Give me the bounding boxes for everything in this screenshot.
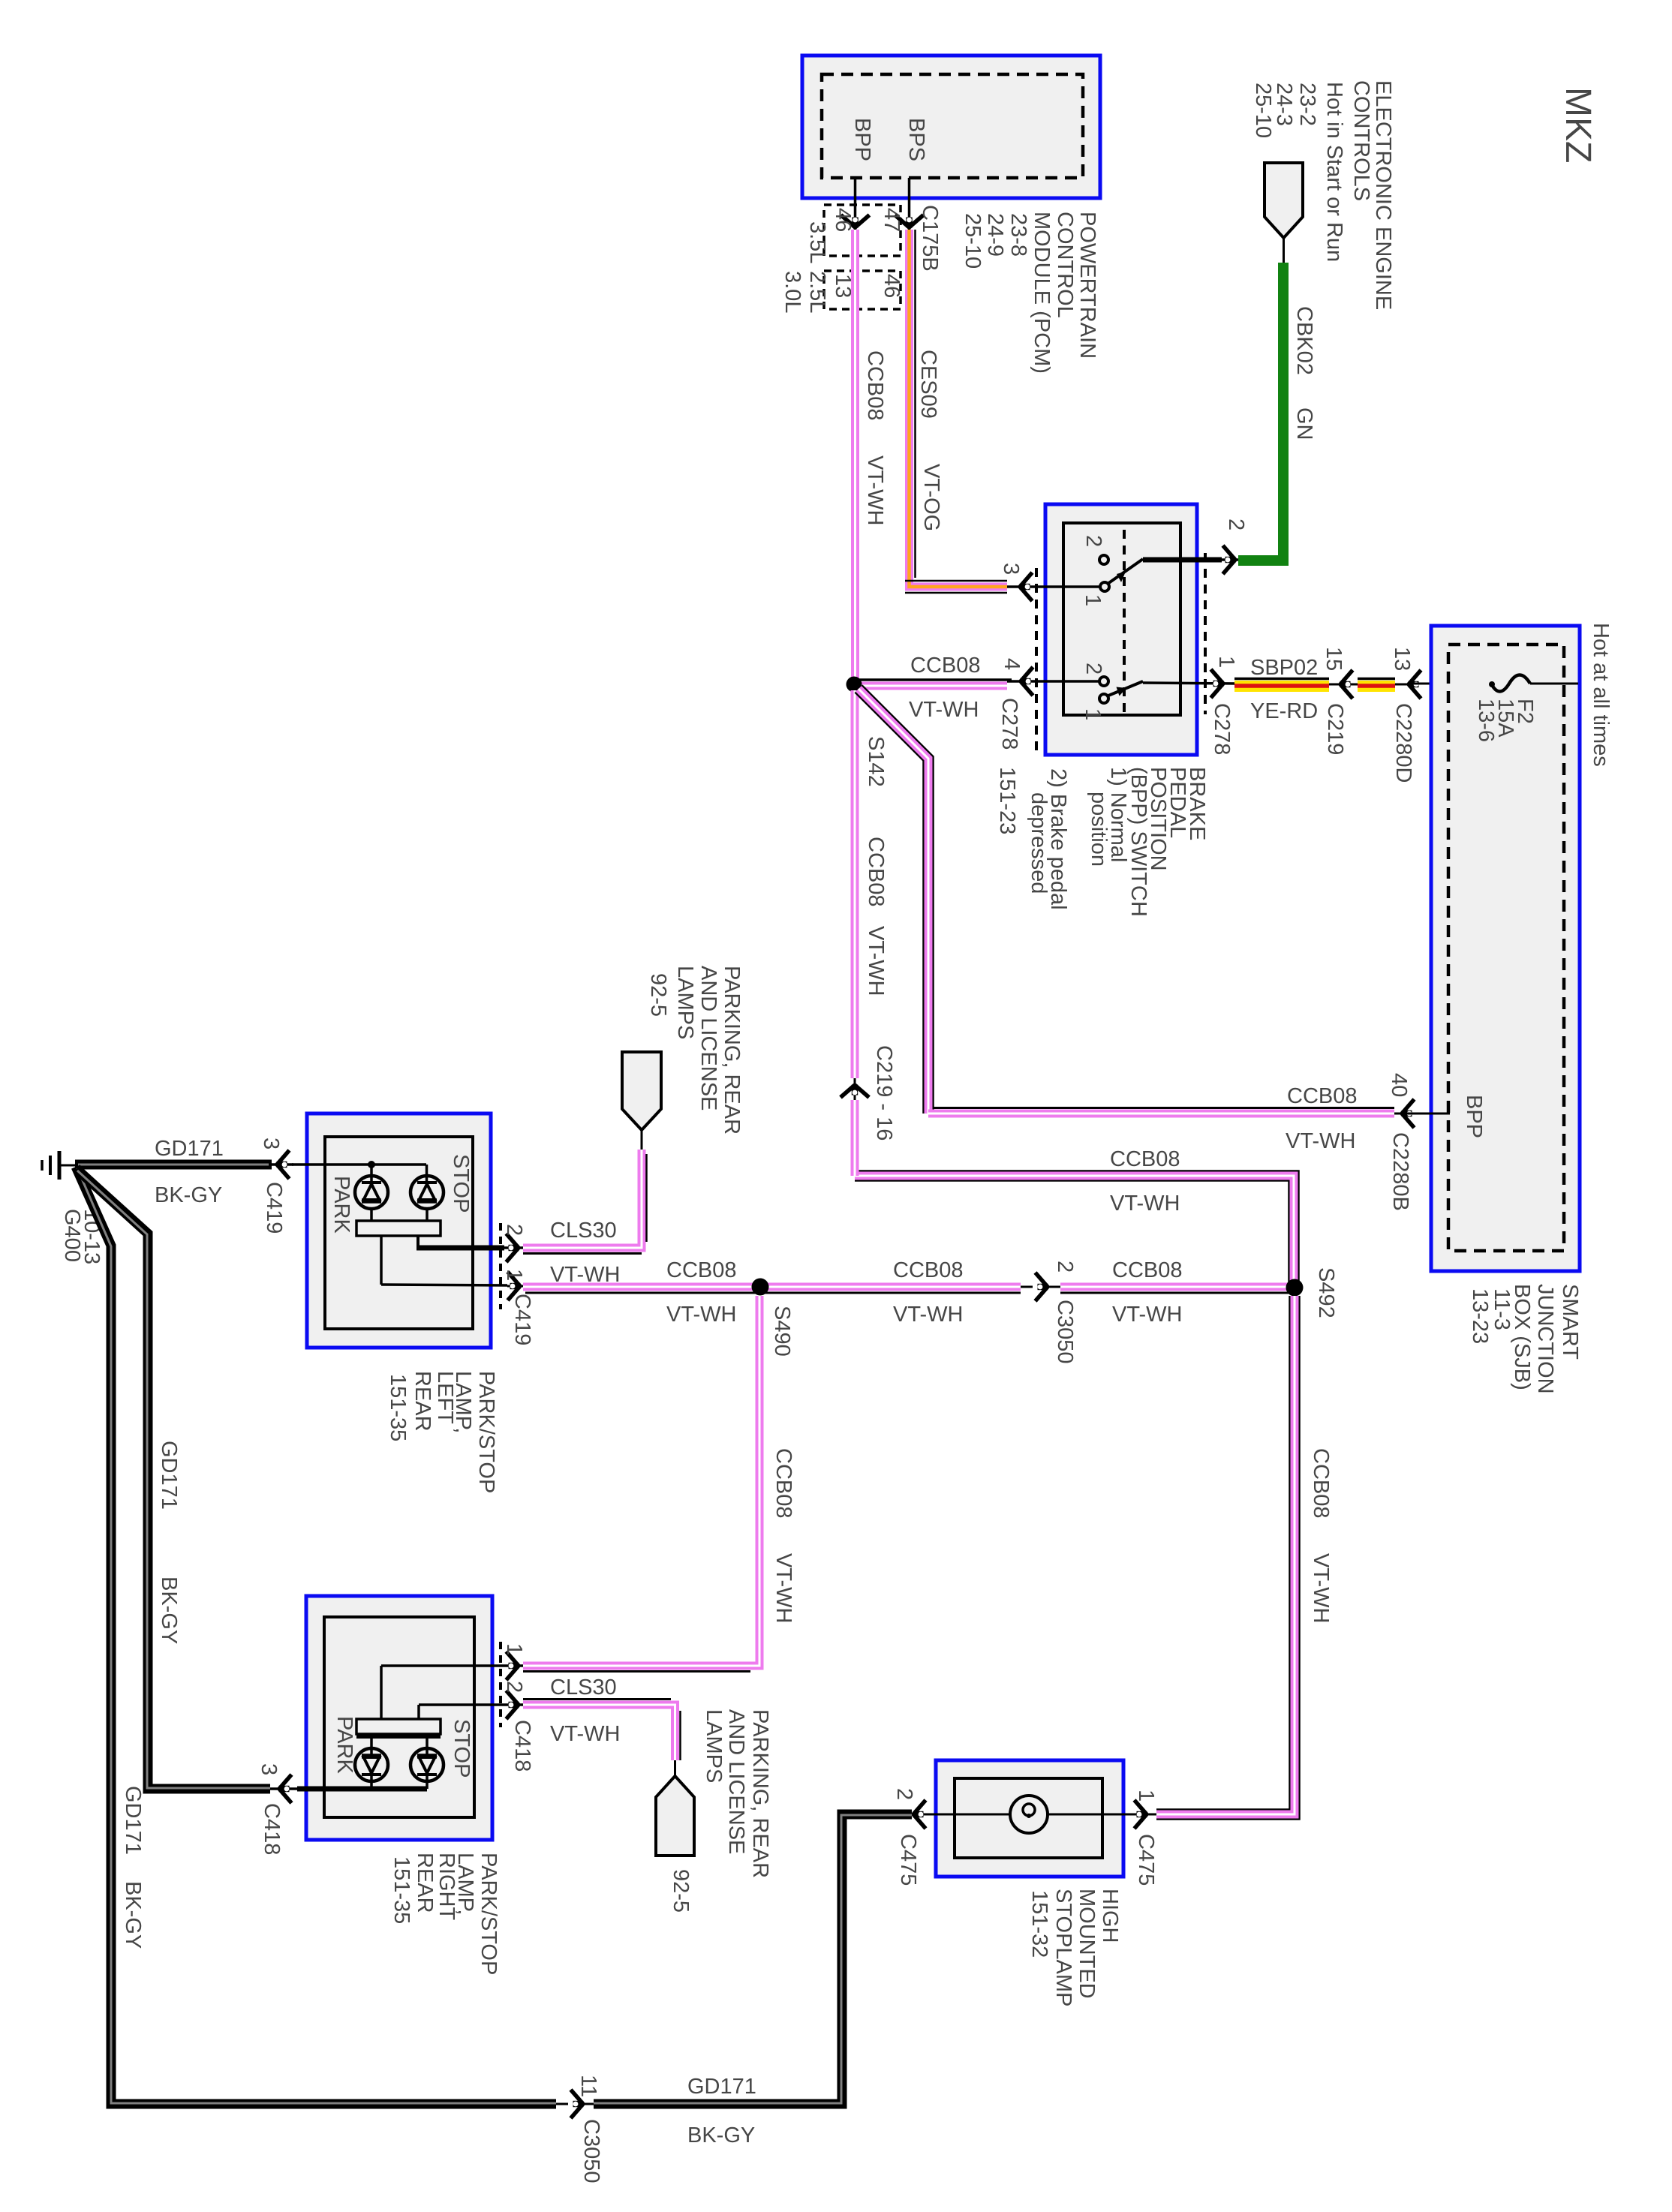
switch2 blade [1108, 681, 1143, 696]
svg-text:PARK/STOP: PARK/STOP [477, 1853, 501, 1975]
svg-text:REAR: REAR [413, 1853, 437, 1913]
left lamp feed line pin 3 [292, 1163, 426, 1166]
stoplamp inner rect [955, 1778, 1102, 1858]
svg-text:BK-GY: BK-GY [157, 1576, 181, 1644]
park/stop lamp right rear box [306, 1596, 492, 1840]
brake pedal position switch box [1045, 504, 1197, 755]
left lamp inner rect [325, 1137, 473, 1329]
switch pin 1 arrow [1211, 669, 1224, 698]
lead into SJB to fuse [1410, 683, 1492, 685]
svg-text:VT-WH: VT-WH [1286, 1129, 1355, 1153]
connector C175B pins 46 47 dashed box 3.5L [824, 205, 901, 256]
stoplamp bulb [1010, 1796, 1048, 1833]
svg-text:C475: C475 [896, 1834, 920, 1886]
svg-text:C278: C278 [997, 698, 1021, 750]
connector C418 dashed line [499, 1642, 502, 1727]
wire CCB08 S142 to switch pin 4 [859, 678, 1012, 681]
C418 pin 1 arrow [507, 1651, 519, 1680]
wire SBP02 YE-RD segment 2 [1358, 678, 1395, 681]
svg-text:3: 3 [259, 1138, 283, 1150]
svg-text:151-35: 151-35 [386, 1374, 410, 1441]
svg-text:PARK/STOP: PARK/STOP [474, 1371, 498, 1493]
svg-text:C419: C419 [262, 1182, 286, 1234]
switch2 lead to pin 1 [1143, 683, 1237, 684]
left lamp stem park [370, 1165, 373, 1184]
svg-text:46: 46 [880, 274, 904, 298]
svg-text:C219: C219 [1323, 703, 1347, 755]
right lamp stems below bulbs [370, 1773, 373, 1789]
svg-text:SBP02: SBP02 [1250, 656, 1318, 680]
wire CCB08 VT-WH PCM to S142 [851, 230, 859, 679]
svg-text:11: 11 [576, 2075, 600, 2097]
fuse F2 15A [1491, 675, 1530, 692]
left lamp lead to pin2 [416, 1236, 420, 1247]
svg-text:23-8: 23-8 [1006, 213, 1030, 257]
SJB inner dashed box [1448, 645, 1564, 1251]
svg-text:SMART: SMART [1558, 1284, 1582, 1360]
wire CCB08 horizontal to S492 top [855, 1176, 1294, 1288]
svg-text:S490: S490 [770, 1306, 794, 1357]
svg-text:C2280B: C2280B [1388, 1132, 1412, 1211]
switch1 lead from pin 3 [1007, 585, 1100, 588]
svg-text:3.0L: 3.0L [780, 271, 804, 313]
svg-text:VT-WH: VT-WH [1110, 1192, 1180, 1216]
wire CCB08 S492 to C475 pin 1 [1156, 1296, 1295, 1814]
wire CCB08 S490 to C418 pin 1 [523, 1296, 759, 1666]
svg-text:3: 3 [257, 1763, 281, 1775]
wire CES09 black edges horizontal [905, 580, 1007, 582]
left lamp lead to pin1 [380, 1236, 383, 1285]
svg-text:CCB08: CCB08 [863, 350, 887, 421]
PCM pin arrow 47 [895, 215, 924, 228]
switch pin 3 arrow [1020, 573, 1033, 601]
lead fuse to box [1530, 683, 1578, 685]
svg-text:2: 2 [892, 1788, 916, 1800]
svg-text:S142: S142 [864, 736, 888, 787]
switch2 lead from pin 4 [1007, 680, 1099, 683]
svg-text:1: 1 [502, 1643, 526, 1655]
svg-text:92-5: 92-5 [669, 1869, 693, 1913]
left lamp bulb stems to bar [370, 1210, 373, 1221]
svg-text:VT-WH: VT-WH [893, 1303, 963, 1327]
svg-text:AND LICENSE: AND LICENSE [724, 1709, 748, 1854]
lead to off-page connector upper [641, 1130, 643, 1150]
svg-text:LAMPS: LAMPS [702, 1709, 726, 1783]
ground G400 symbol [58, 1151, 62, 1180]
junction S490 [752, 1279, 769, 1296]
svg-text:CCB08: CCB08 [1110, 1147, 1180, 1171]
svg-text:YE-RD: YE-RD [1250, 699, 1318, 723]
svg-text:C418: C418 [260, 1803, 284, 1855]
svg-text:92-5: 92-5 [646, 973, 670, 1017]
svg-text:MOUNTED: MOUNTED [1075, 1889, 1099, 1999]
svg-text:POWERTRAIN: POWERTRAIN [1075, 212, 1099, 359]
svg-text:C219 - 16: C219 - 16 [872, 1045, 896, 1141]
connector C278 dashed line left [1035, 568, 1038, 750]
svg-text:LAMPS: LAMPS [673, 966, 697, 1039]
svg-text:PARKING, REAR: PARKING, REAR [748, 1709, 772, 1878]
left lamp holder bar [356, 1221, 441, 1236]
svg-text:VT-WH: VT-WH [1112, 1303, 1182, 1327]
svg-text:2: 2 [1053, 1261, 1077, 1273]
right lamp holder bar [356, 1719, 441, 1734]
svg-text:VT-OG: VT-OG [919, 464, 943, 531]
junction S142 [847, 677, 862, 693]
C418 pin 2 arrow [507, 1691, 519, 1719]
wire CLS30 VT-WH to left lamp pin 2 [523, 1150, 642, 1248]
svg-text:VT-WH: VT-WH [771, 1553, 795, 1623]
bulb STOP left lamp [410, 1176, 444, 1209]
lead from off-page connector [1283, 238, 1285, 264]
svg-text:2: 2 [1081, 535, 1105, 547]
svg-text:REAR: REAR [410, 1371, 435, 1432]
PCM pin arrow 46 [841, 215, 870, 228]
svg-text:BPP: BPP [1462, 1095, 1486, 1138]
SJB pin 40 arrow [1402, 1099, 1415, 1128]
svg-text:VT-WH: VT-WH [550, 1722, 620, 1746]
bulb STOP right lamp [410, 1748, 444, 1781]
svg-text:23-2: 23-2 [1295, 83, 1319, 126]
junction S492 [1286, 1279, 1304, 1297]
connector C219 pin 16 arrow [841, 1085, 869, 1098]
svg-text:C175B: C175B [918, 205, 942, 272]
C418 pin 3 arrow [279, 1775, 292, 1803]
svg-text:CCB08: CCB08 [893, 1258, 964, 1282]
svg-text:13-6: 13-6 [1474, 699, 1498, 742]
svg-text:1: 1 [1081, 708, 1105, 720]
connector C3050 pin 2 arrow [1036, 1273, 1048, 1301]
svg-text:MODULE (PCM): MODULE (PCM) [1030, 212, 1054, 374]
svg-text:BK-GY: BK-GY [155, 1183, 222, 1207]
svg-text:VT-WH: VT-WH [864, 926, 888, 996]
svg-text:Hot at all times: Hot at all times [1589, 623, 1613, 767]
bulb PARK right lamp [355, 1748, 388, 1781]
svg-text:CCB08: CCB08 [666, 1258, 737, 1282]
svg-text:STOPLAMP: STOPLAMP [1051, 1889, 1075, 2006]
svg-text:S492: S492 [1314, 1267, 1338, 1318]
right lamp lead pin2 [419, 1703, 523, 1706]
svg-text:CBK02: CBK02 [1292, 306, 1316, 375]
wire CCB08 S142 down to corner [851, 690, 859, 1078]
lead switch pin1 to wire [1231, 683, 1237, 685]
switch2 pivot 1 circle [1099, 694, 1108, 703]
bulb PARK left lamp [355, 1176, 388, 1209]
wire CES09 black edge right [914, 230, 916, 578]
svg-text:C419: C419 [510, 1294, 534, 1345]
svg-text:11-3: 11-3 [1490, 1288, 1514, 1330]
svg-text:HIGH: HIGH [1098, 1889, 1122, 1943]
wire GD171 BK-GY ground down long [76, 1167, 556, 2104]
switch pin 2 arrow [1223, 545, 1236, 574]
wire CCB08 C3050 to S492 [1060, 1283, 1290, 1291]
C419 pin 1 arrow [508, 1272, 521, 1300]
svg-text:CLS30: CLS30 [550, 1676, 617, 1700]
svg-text:CCB08: CCB08 [771, 1448, 795, 1519]
svg-text:BPP: BPP [850, 118, 874, 161]
svg-text:C3050: C3050 [579, 2119, 603, 2183]
svg-text:3: 3 [999, 563, 1023, 575]
wire CLS30 VT-WH right lamp pin 2 [523, 1705, 675, 1760]
left lamp feed junction dot [368, 1161, 375, 1168]
wire CES09 VT-OG [910, 230, 1008, 587]
switch1 pivot 1 circle [1100, 582, 1109, 591]
svg-text:GD171: GD171 [121, 1786, 145, 1855]
svg-text:40: 40 [1387, 1073, 1411, 1097]
off-page connector parking lamps upper [622, 1052, 661, 1130]
svg-text:47: 47 [880, 208, 904, 232]
off-page connector to electronic engine controls [1265, 163, 1303, 238]
off-page connector parking lamps lower [656, 1776, 694, 1856]
connector C2280D arrow pin 13 [1395, 684, 1410, 686]
svg-text:C2280D: C2280D [1391, 703, 1415, 783]
svg-text:GD171: GD171 [157, 1441, 181, 1510]
right lamp stems above bulbs [370, 1734, 373, 1757]
svg-text:VT-WH: VT-WH [1309, 1553, 1333, 1623]
connector C278 dashed line right [1204, 553, 1207, 714]
powertrain control module PCM box [802, 56, 1100, 198]
svg-text:CONTROLS: CONTROLS [1349, 80, 1373, 201]
wire CCB08 C419 to C3050 [523, 1283, 1021, 1291]
stoplamp lead line [912, 1814, 1012, 1816]
svg-text:depressed: depressed [1027, 792, 1051, 894]
high mounted stoplamp box [936, 1760, 1123, 1877]
switch2 contact 2 circle [1099, 677, 1108, 686]
svg-text:C418: C418 [510, 1720, 534, 1772]
svg-text:PARK: PARK [329, 1176, 353, 1234]
svg-text:4: 4 [1000, 658, 1024, 670]
switch pin 4 arrow [1021, 667, 1033, 696]
svg-text:AND LICENSE: AND LICENSE [696, 966, 720, 1111]
svg-text:CCB08: CCB08 [1309, 1448, 1333, 1519]
switch1 contact 2 circle [1099, 555, 1108, 564]
svg-text:25-10: 25-10 [961, 213, 985, 269]
park/stop lamp left rear box [307, 1114, 491, 1348]
right lamp lead pin1 [381, 1664, 523, 1667]
svg-text:2: 2 [1081, 663, 1105, 675]
PCM inner dashed box [822, 74, 1083, 178]
svg-text:CCB08: CCB08 [1287, 1084, 1358, 1108]
lead to off-page connector lower [674, 1760, 676, 1778]
svg-text:VT-WH: VT-WH [909, 698, 979, 722]
svg-text:2: 2 [1224, 518, 1248, 530]
svg-text:2: 2 [502, 1224, 526, 1236]
svg-text:1: 1 [502, 1269, 526, 1281]
svg-text:CCB08: CCB08 [910, 654, 981, 678]
svg-text:C475: C475 [1134, 1834, 1158, 1886]
wire CBK02 GN green [1238, 263, 1283, 561]
svg-text:25-10: 25-10 [1251, 83, 1275, 138]
connector C219 arrow pin 15 [1329, 684, 1358, 686]
svg-text:STOP: STOP [450, 1719, 474, 1778]
svg-text:BPS: BPS [904, 118, 928, 161]
switch1 thick lead to pin 2 [1143, 558, 1222, 563]
C475 pin 2 arrow [913, 1800, 926, 1829]
svg-text:GD171: GD171 [687, 2075, 756, 2099]
svg-text:STOP: STOP [449, 1154, 473, 1213]
SJB pin 40 lead [1393, 1113, 1450, 1115]
connector C419 dashed line [499, 1223, 502, 1309]
right lamp bar thick bottom [356, 1734, 441, 1739]
svg-text:1: 1 [1081, 594, 1105, 606]
svg-text:VT-WH: VT-WH [666, 1303, 736, 1327]
svg-text:151-32: 151-32 [1027, 1890, 1051, 1958]
svg-text:BK-GY: BK-GY [687, 2123, 755, 2147]
svg-text:13-23: 13-23 [1468, 1288, 1492, 1344]
svg-text:VT-WH: VT-WH [550, 1263, 620, 1287]
PCM pin lead BPS [908, 178, 911, 231]
connector C3050 pin 11 arrow [571, 2090, 584, 2118]
wire GD171 BK-GY ground to C419 pin 3 [75, 1160, 272, 1170]
left lamp stem stop [426, 1165, 429, 1184]
right lamp thick common to pin 3 [297, 1787, 427, 1792]
svg-text:JUNCTION: JUNCTION [1533, 1284, 1557, 1394]
svg-text:GD171: GD171 [155, 1137, 224, 1161]
switch mid dashed line [1123, 530, 1126, 714]
svg-text:Hot in Start or Run: Hot in Start or Run [1322, 82, 1346, 262]
svg-text:13: 13 [1390, 647, 1414, 671]
wire SBP02 YE-RD segment 1 [1234, 678, 1329, 681]
wire CCB08 S142 diagonal branch to SJB pin 40 [859, 689, 928, 1114]
C419 pin 3 arrow [269, 1163, 293, 1166]
PCM pin lead BPP [854, 178, 857, 231]
right lamp inner rect [324, 1617, 474, 1817]
svg-text:position: position [1087, 792, 1111, 867]
svg-text:151-23: 151-23 [995, 767, 1019, 834]
wire GD171 BK-GY to stoplamp pin 2 [594, 1814, 912, 2104]
svg-text:CONTROL: CONTROL [1053, 212, 1077, 318]
wire GD171 BK-GY ground to C418 pin 3 [77, 1169, 270, 1789]
svg-text:151-35: 151-35 [389, 1856, 413, 1924]
smart junction box SJB [1431, 626, 1580, 1271]
svg-text:PARK: PARK [332, 1716, 356, 1774]
C419 pin 2 arrow [507, 1234, 519, 1262]
C475 pin 1 arrow [1135, 1800, 1147, 1829]
connector C175B pins 13 46 dashed box 2.5L 3.0L [824, 271, 901, 309]
svg-text:3.5L: 3.5L [805, 221, 829, 263]
svg-text:C3050: C3050 [1053, 1300, 1077, 1363]
svg-text:LEFT: LEFT [433, 1371, 457, 1424]
switch inner rect [1063, 523, 1180, 715]
svg-text:1: 1 [1214, 656, 1238, 668]
svg-text:BK-GY: BK-GY [121, 1881, 145, 1949]
svg-text:CES09: CES09 [916, 350, 940, 419]
svg-text:RIGHT: RIGHT [435, 1853, 459, 1921]
svg-text:CCB08: CCB08 [1112, 1258, 1183, 1282]
svg-text:2.5L: 2.5L [805, 271, 829, 313]
svg-text:1: 1 [1134, 1790, 1158, 1802]
switch1 blade [1108, 559, 1143, 584]
svg-text:MKZ: MKZ [1558, 87, 1598, 163]
svg-text:PARKING, REAR: PARKING, REAR [720, 966, 744, 1135]
svg-text:2: 2 [502, 1681, 526, 1693]
svg-text:CCB08: CCB08 [864, 837, 888, 907]
svg-text:GN: GN [1292, 407, 1316, 440]
svg-text:C278: C278 [1210, 703, 1234, 755]
svg-text:46: 46 [831, 208, 855, 232]
svg-text:CLS30: CLS30 [550, 1219, 617, 1243]
svg-text:ELECTRONIC ENGINE: ELECTRONIC ENGINE [1371, 80, 1395, 310]
svg-text:15: 15 [1322, 647, 1346, 671]
svg-text:VT-WH: VT-WH [863, 455, 887, 525]
svg-text:24-9: 24-9 [983, 213, 1007, 257]
